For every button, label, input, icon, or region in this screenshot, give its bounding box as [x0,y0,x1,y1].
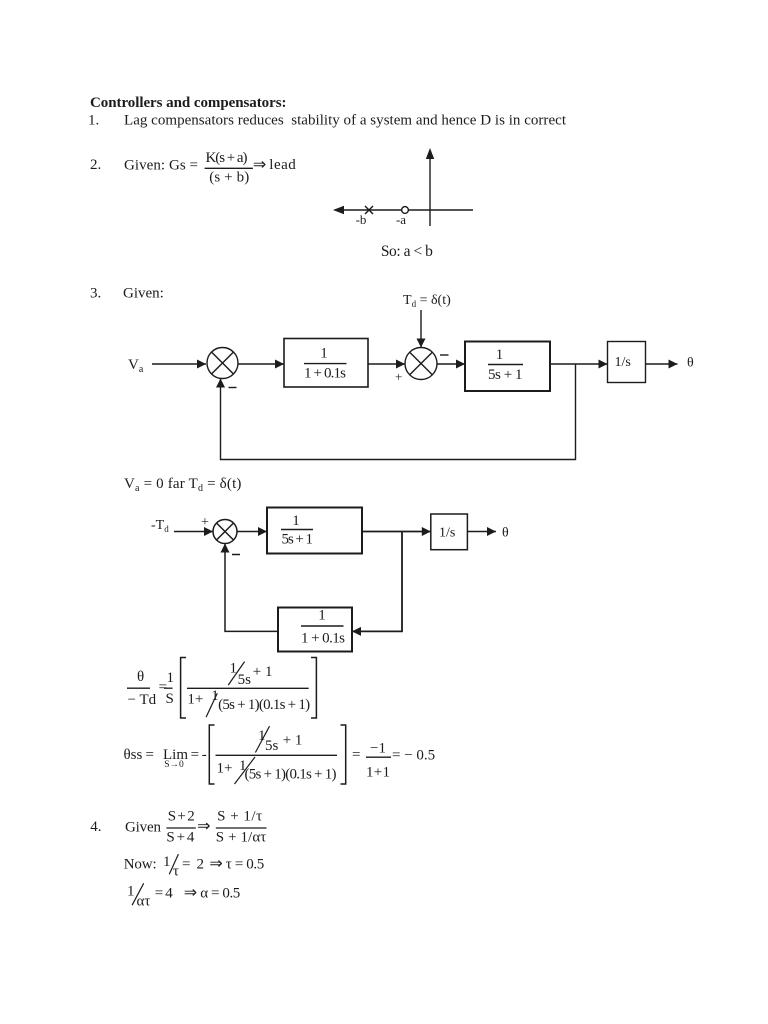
minus sign at S1 [229,387,237,389]
block G2 [465,342,550,392]
wire Va to sum1 [152,363,206,365]
wire -Td to sum [174,531,213,533]
wire Td into S2 [420,310,422,348]
main bar [216,754,338,756]
fraction bar [205,167,253,169]
svg-text:Given: Gs =: Given: Gs = [124,158,198,174]
svg-text:⇒: ⇒ [184,885,197,902]
svg-text:Given: Given [125,820,162,836]
svg-text:⇒: ⇒ [209,856,222,873]
svg-text:3.: 3. [90,286,101,302]
svg-text:−1: −1 [370,741,386,757]
svg-text:+ 1: + 1 [283,733,303,749]
real axis [335,209,473,211]
wire G2 to integrator [550,363,608,365]
wire S3 to block G3 [237,531,267,533]
svg-text:τ: τ [173,864,179,880]
left bracket [209,725,214,784]
svg-text:S + 1/ατ: S + 1/ατ [216,830,266,846]
svg-text:S + 1/τ: S + 1/τ [217,809,262,825]
svg-text:1/s: 1/s [615,355,631,370]
wire G1 to sum2 [368,363,405,365]
svg-text:ατ: ατ [137,894,151,910]
svg-text:lead: lead [269,157,296,173]
block G3 [267,508,362,554]
main bar [187,687,309,689]
wire S2 to block G2 [438,363,466,365]
svg-text:= 4: = 4 [155,886,174,902]
right bracket [341,725,346,784]
svg-text:1+: 1+ [187,692,203,708]
svg-text:− Td: − Td [128,692,157,708]
svg-text:Controllers and compensators:: Controllers and compensators: [90,95,287,111]
svg-text:(s + b): (s + b) [209,170,249,186]
svg-text:(5s + 1)(0.1s + 1): (5s + 1)(0.1s + 1) [218,697,310,713]
summing junction S2 [405,348,437,380]
svg-text:S + 4: S + 4 [166,830,195,846]
svg-text:-Td: -Td [151,518,169,534]
svg-text:5s + 1: 5s + 1 [488,367,523,383]
svg-text:2.: 2. [90,157,101,173]
svg-text:1: 1 [127,884,135,900]
svg-text:⇒: ⇒ [197,818,210,835]
svg-text:θss: θss [124,747,143,763]
svg-text:K(s + a): K(s + a) [206,150,248,166]
svg-text:+: + [201,515,209,530]
svg-text:τ = 0.5: τ = 0.5 [226,857,264,873]
block integrator 1/s [608,342,646,383]
svg-text:=: = [146,747,154,763]
svg-text:-: - [202,747,207,763]
block integrator 1/s [431,514,468,550]
svg-text:=: = [191,747,199,763]
svg-text:1: 1 [496,347,504,363]
svg-text:5s: 5s [238,672,252,688]
svg-text:1: 1 [292,513,300,529]
svg-text:1+: 1+ [217,761,233,777]
svg-text:1+1: 1+1 [366,765,390,781]
svg-text:=: = [352,747,360,763]
svg-text:⇒: ⇒ [253,157,266,174]
output wire theta [467,531,496,533]
svg-text:= − 0.5: = − 0.5 [392,748,435,764]
right bracket [311,658,316,719]
svg-text:-b: -b [356,212,367,227]
svg-text:Va: Va [128,357,144,375]
minus sign at S2 [440,354,449,356]
summing junction S1 [207,348,238,379]
feedback takeoff down to H block [352,532,402,632]
svg-text:Va = 0 far Td = δ(t): Va = 0 far Td = δ(t) [124,476,242,494]
svg-text:Now:: Now: [124,857,157,873]
svg-text:α = 0.5: α = 0.5 [200,886,240,902]
svg-text:θ: θ [502,526,509,541]
wire S1 to block G1 [238,363,284,365]
svg-text:-a: -a [396,212,406,227]
pole X at -b [365,206,373,214]
svg-text:1: 1 [167,670,175,686]
zero O at -a [402,207,409,214]
svg-text:4.: 4. [90,819,101,835]
svg-text:+ 1: + 1 [253,664,273,680]
svg-text:S + 2: S + 2 [168,809,195,825]
svg-text:θ: θ [687,356,694,371]
svg-text:5s: 5s [265,738,279,754]
svg-text:1 + 0.1s: 1 + 0.1s [301,631,345,647]
svg-text:Td = δ(t): Td = δ(t) [403,293,451,309]
minus sign [232,554,240,556]
svg-text:So: a < b: So: a < b [381,243,433,260]
block G1 [284,339,368,388]
svg-text:1 + 0.1s: 1 + 0.1s [304,366,346,382]
feedback wire H to S3 [225,544,278,632]
svg-text:Lag compensators reduces stab: Lag compensators reduces stability of a … [124,113,567,129]
svg-text:1.: 1. [88,113,99,129]
svg-text:5s + 1: 5s + 1 [282,532,314,548]
left bracket [181,658,186,719]
svg-text:θ: θ [137,669,144,685]
svg-text:Given:: Given: [123,286,164,302]
svg-text:(5s + 1)(0.1s + 1): (5s + 1)(0.1s + 1) [245,767,337,783]
svg-text:= 2: = 2 [182,857,204,873]
svg-text:1: 1 [320,346,328,362]
svg-text:1: 1 [163,854,171,870]
block H [278,608,352,652]
wire G3 to integrator [362,531,431,533]
svg-text:1/s: 1/s [439,526,455,541]
svg-text:S→0: S→0 [164,760,184,770]
imaginary axis [429,156,431,226]
svg-text:+: + [395,369,402,384]
output wire to theta [646,363,678,365]
feedback wire [221,364,576,460]
svg-text:S: S [166,691,174,707]
summing junction S3 [213,520,237,544]
svg-text:1: 1 [318,608,326,624]
